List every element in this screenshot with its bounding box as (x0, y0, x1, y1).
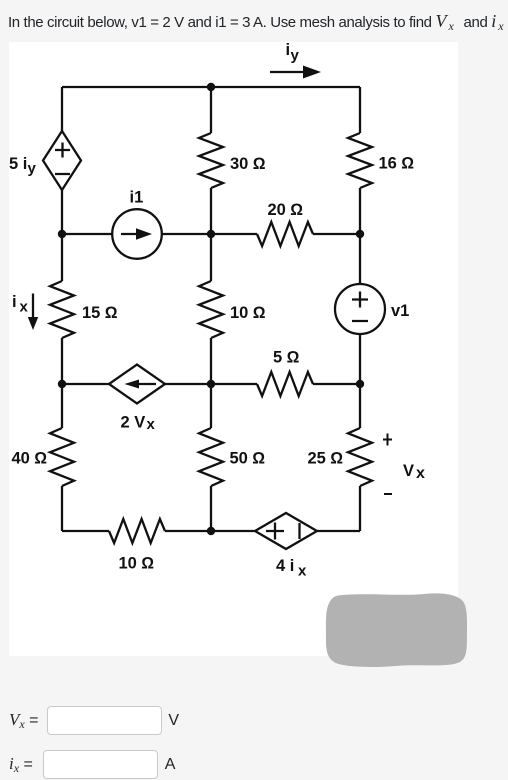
svg-text:40 Ω: 40 Ω (12, 450, 48, 468)
svg-text:15 Ω: 15 Ω (82, 304, 118, 322)
svg-text:4 i: 4 i (276, 557, 294, 575)
svg-text:20 Ω: 20 Ω (268, 201, 304, 219)
svg-text:x: x (20, 299, 29, 316)
svg-text:V: V (403, 462, 414, 480)
svg-text:30 Ω: 30 Ω (230, 155, 266, 173)
svg-text:5 Ω: 5 Ω (273, 349, 300, 367)
svg-text:16 Ω: 16 Ω (379, 155, 415, 173)
svg-text:10 Ω: 10 Ω (230, 304, 266, 322)
svg-text:y: y (28, 160, 37, 177)
svg-text:2 V: 2 V (121, 414, 146, 432)
svg-text:y: y (291, 47, 300, 64)
svg-text:i: i (286, 41, 291, 59)
svg-text:x: x (147, 416, 156, 433)
svg-text:10 Ω: 10 Ω (119, 555, 155, 573)
svg-text:v1: v1 (391, 302, 409, 320)
svg-text:25 Ω: 25 Ω (308, 450, 344, 468)
svg-text:x: x (416, 465, 425, 482)
svg-text:i1: i1 (130, 189, 144, 207)
svg-text:50 Ω: 50 Ω (230, 450, 266, 468)
svg-text:5 i: 5 i (9, 155, 27, 173)
svg-text:i: i (12, 293, 17, 311)
svg-text:x: x (298, 563, 307, 580)
